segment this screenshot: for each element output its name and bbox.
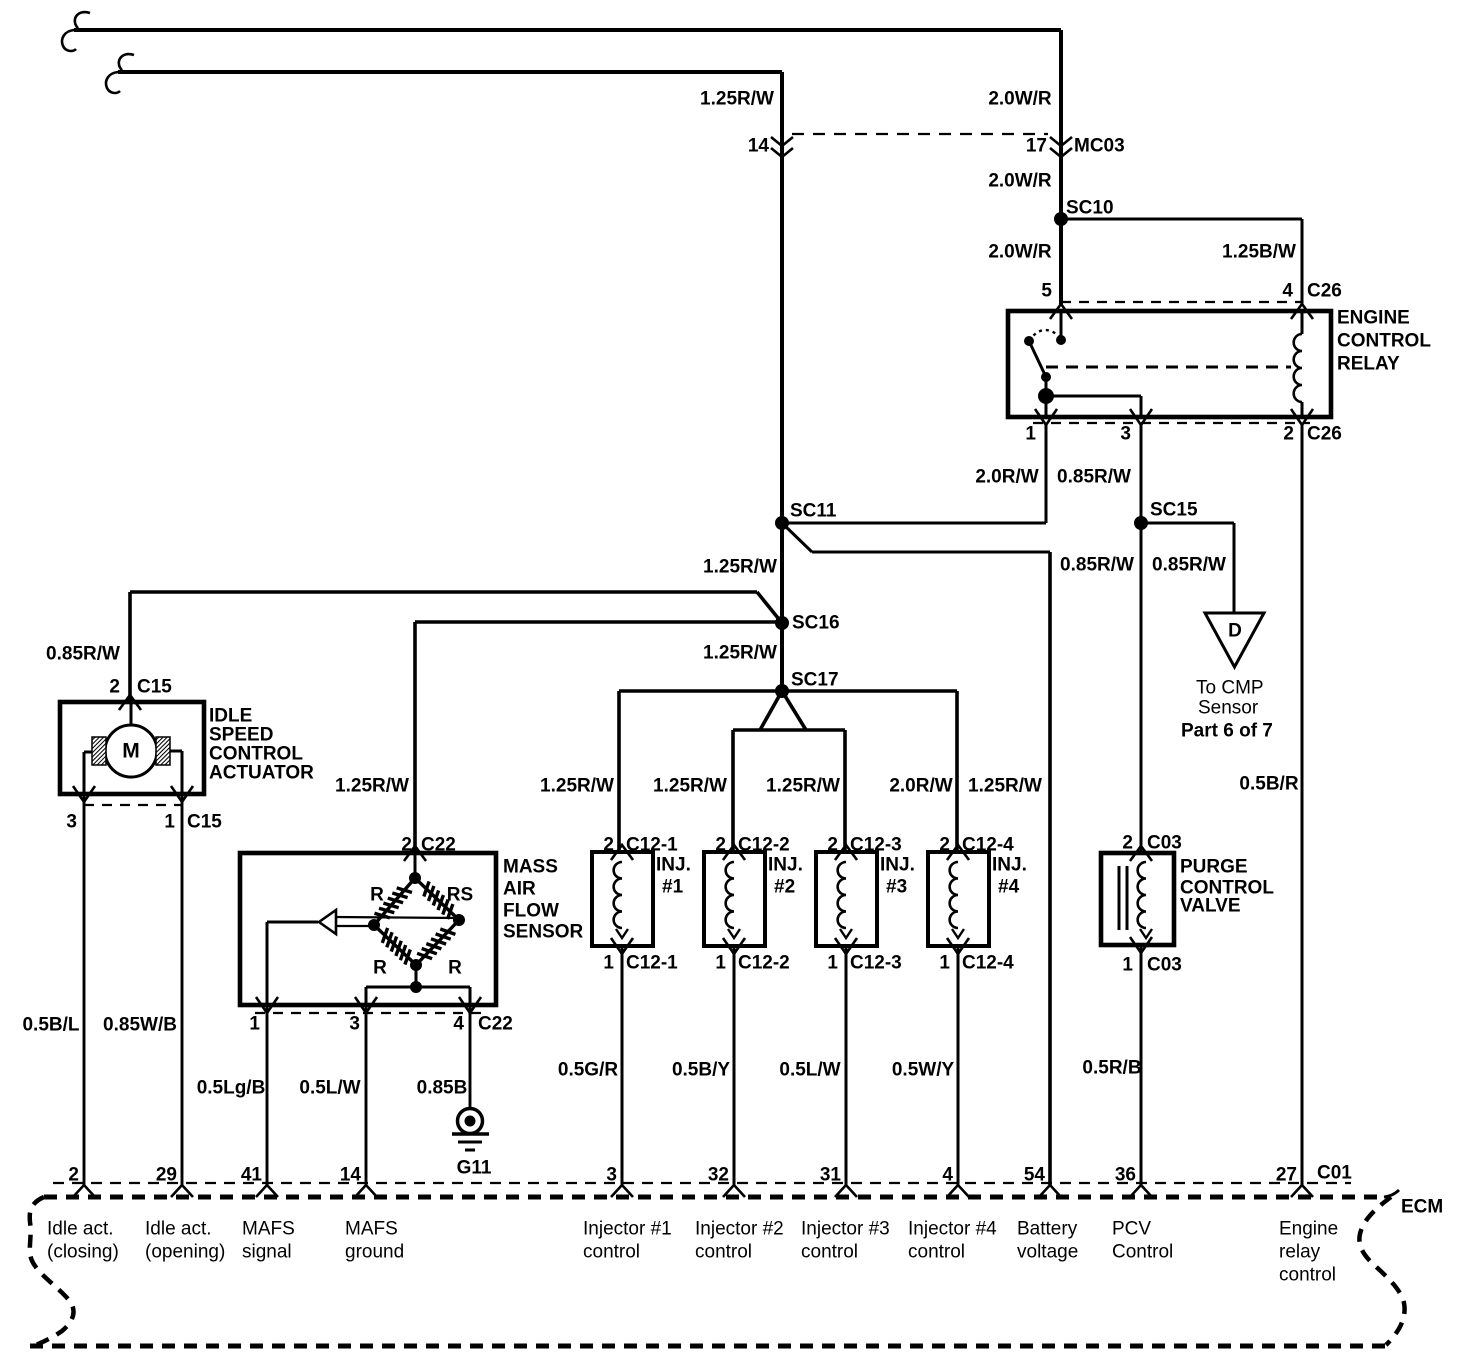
- svg-text:0.5Lg/B: 0.5Lg/B: [197, 1078, 266, 1099]
- relay contact fixed dot left: [1024, 336, 1034, 346]
- svg-text:PURGE: PURGE: [1180, 857, 1248, 878]
- ECM pin 3 arrow: [611, 1185, 633, 1197]
- amplifier arrow shaft: [335, 917, 458, 918]
- splice SC15: [1134, 516, 1148, 530]
- svg-text:control: control: [908, 1242, 965, 1263]
- svg-text:CONTROL: CONTROL: [209, 744, 303, 765]
- injector #3 pin 1 exit arrow: [835, 938, 857, 954]
- ECM pin 41 arrow: [256, 1185, 278, 1197]
- motor M symbol: [105, 725, 157, 777]
- svg-text:RELAY: RELAY: [1337, 354, 1400, 375]
- svg-text:Idle act.: Idle act.: [47, 1219, 114, 1240]
- svg-text:C12-1: C12-1: [626, 835, 678, 856]
- svg-text:0.5R/B: 0.5R/B: [1082, 1058, 1141, 1079]
- svg-text:M: M: [122, 740, 140, 763]
- off-page arrow D To CMP Sensor: [1205, 613, 1264, 667]
- ECM case right wavy dashed border: [1359, 1197, 1404, 1345]
- wire diagonal from SC11 to battery feed: [782, 523, 812, 552]
- svg-text:3: 3: [66, 812, 77, 833]
- wire 1.25R/W injector4 feed: [955, 691, 959, 852]
- wire injector #2 control to ECM 32: [733, 946, 736, 1185]
- bridge node top: [409, 872, 421, 884]
- ECM pin 29 arrow: [171, 1185, 193, 1197]
- idle pin 2 entry arrow: [119, 695, 141, 710]
- purge valve coil: [1138, 862, 1146, 928]
- connector MC03 pin 14: [771, 137, 793, 157]
- svg-text:1.25R/W: 1.25R/W: [335, 776, 409, 797]
- svg-text:R: R: [373, 958, 387, 979]
- splice SC17: [775, 684, 789, 698]
- bridge ground junction dot: [410, 981, 422, 993]
- svg-text:0.5L/W: 0.5L/W: [299, 1078, 360, 1099]
- svg-text:#2: #2: [774, 877, 795, 898]
- svg-text:Injector #4: Injector #4: [908, 1219, 997, 1240]
- wire bridge ground left drop: [365, 987, 368, 1005]
- relay pin 1 exit arrow: [1035, 409, 1057, 425]
- idle pin 3 exit arrow: [73, 786, 95, 802]
- ECM pin 2 arrow: [73, 1185, 95, 1197]
- svg-text:0.85R/W: 0.85R/W: [1060, 555, 1134, 576]
- connector C15 bottom dashed: [84, 804, 182, 806]
- relay contact fixed dot right: [1056, 335, 1066, 345]
- splice SC10: [1054, 212, 1068, 226]
- ECM pin 4 arrow: [947, 1185, 969, 1197]
- svg-text:C26: C26: [1307, 424, 1342, 445]
- wire 0.85R/W relay pin3 down through SC15 to purge valve: [1140, 423, 1143, 853]
- svg-text:31: 31: [820, 1165, 842, 1186]
- ECM case top dashed border: [44, 1195, 1384, 1200]
- wire motor right lead down: [181, 751, 184, 794]
- svg-text:2: 2: [603, 835, 614, 856]
- connector C26 top dashed: [1061, 301, 1302, 303]
- relay pin 4 entry arrow: [1291, 304, 1313, 319]
- svg-text:control: control: [1279, 1265, 1336, 1286]
- svg-text:C12-4: C12-4: [962, 835, 1014, 856]
- injector #4 box: [928, 852, 989, 946]
- relay switch armature: [1029, 341, 1046, 377]
- wire 1.25R/W second horizontal feed: [118, 70, 782, 74]
- injector #1 box: [592, 852, 653, 946]
- svg-text:5: 5: [1041, 281, 1052, 302]
- svg-text:1: 1: [1025, 424, 1036, 445]
- svg-text:2: 2: [109, 677, 120, 698]
- injector #1 coil: [614, 862, 622, 928]
- svg-text:32: 32: [708, 1165, 729, 1186]
- svg-text:0.85W/B: 0.85W/B: [103, 1015, 177, 1036]
- svg-text:1.25R/W: 1.25R/W: [766, 776, 840, 797]
- svg-text:signal: signal: [242, 1242, 292, 1263]
- svg-text:#3: #3: [886, 877, 907, 898]
- motor brush left: [92, 737, 106, 765]
- svg-text:#4: #4: [998, 877, 1020, 898]
- svg-text:relay: relay: [1279, 1242, 1321, 1263]
- svg-text:SENSOR: SENSOR: [503, 922, 584, 943]
- idle pin 1 exit arrow: [171, 786, 193, 802]
- wire diagonal into SC16: [757, 592, 782, 623]
- mass air flow sensor box: [240, 853, 496, 1005]
- connector C26 bottom dashed: [1033, 422, 1310, 424]
- bridge node right: [453, 914, 465, 926]
- svg-text:Injector #3: Injector #3: [801, 1219, 890, 1240]
- injector #4 pin 1 exit arrow: [947, 938, 969, 954]
- wire 0.5R/B PCV control to ECM 36: [1140, 945, 1143, 1185]
- svg-text:2: 2: [1283, 424, 1294, 445]
- wire 1.25R/W to idle actuator horizontal: [130, 590, 757, 594]
- svg-text:SC10: SC10: [1066, 198, 1114, 219]
- svg-text:control: control: [801, 1242, 858, 1263]
- svg-text:0.5B/Y: 0.5B/Y: [672, 1060, 730, 1081]
- svg-text:14: 14: [340, 1165, 362, 1186]
- svg-text:2.0W/R: 2.0W/R: [988, 171, 1052, 192]
- purge pin 2 entry arrow: [1130, 846, 1152, 861]
- wire 1.25R/W injector1 feed: [617, 691, 621, 853]
- svg-text:3: 3: [1120, 424, 1131, 445]
- svg-text:PCV: PCV: [1112, 1219, 1151, 1240]
- ECM pin 36 arrow: [1130, 1185, 1152, 1197]
- wire SC15 branch vertical to CMP triangle: [1233, 523, 1236, 613]
- bridge node bottom: [410, 959, 422, 971]
- wire 0.5B/R engine relay control vertical to ECM 27: [1301, 423, 1304, 1185]
- svg-text:0.85R/W: 0.85R/W: [1152, 555, 1226, 576]
- svg-text:control: control: [583, 1242, 640, 1263]
- svg-text:C12-4: C12-4: [962, 953, 1014, 974]
- svg-text:36: 36: [1115, 1165, 1136, 1186]
- svg-text:(opening): (opening): [145, 1242, 225, 1263]
- wire 0.5Lg/B MAFS signal to ECM 41: [266, 1005, 269, 1185]
- svg-text:0.5B/R: 0.5B/R: [1239, 774, 1298, 795]
- svg-text:4: 4: [942, 1165, 953, 1186]
- svg-text:C12-3: C12-3: [850, 953, 902, 974]
- svg-text:(closing): (closing): [47, 1242, 119, 1263]
- wire 0.85W/B idle opening to ECM 29: [181, 794, 184, 1185]
- wire SC17 crossbar: [733, 728, 845, 732]
- svg-text:0.5B/L: 0.5B/L: [22, 1015, 79, 1036]
- wire 2.0W/R vertical to engine control relay pin 5: [1059, 30, 1063, 304]
- injector #3 pin 2 entry arrow: [835, 845, 857, 860]
- wire 0.5B/L idle closing to ECM 2: [83, 794, 86, 1185]
- svg-text:AIR: AIR: [503, 879, 536, 900]
- svg-text:#1: #1: [662, 877, 684, 898]
- svg-text:IDLE: IDLE: [209, 706, 252, 727]
- wire injector #1 control to ECM 3: [621, 946, 624, 1185]
- svg-text:C03: C03: [1147, 955, 1182, 976]
- svg-text:Part 6 of 7: Part 6 of 7: [1181, 721, 1273, 742]
- wire bridge ground horizontal: [366, 986, 470, 989]
- svg-text:2: 2: [68, 1165, 79, 1186]
- wire 0.85B to ground G11: [469, 1005, 472, 1108]
- svg-text:2.0R/W: 2.0R/W: [889, 776, 952, 797]
- wire MAFS signal lead: [267, 921, 318, 924]
- ECM pin 32 arrow: [723, 1185, 745, 1197]
- wire 0.5L/W MAFS ground to ECM 14: [365, 1005, 368, 1185]
- wire SC17 right diagonal: [782, 691, 806, 730]
- motor brush right: [156, 737, 170, 765]
- svg-text:voltage: voltage: [1017, 1242, 1078, 1263]
- svg-text:Control: Control: [1112, 1242, 1173, 1263]
- engine control relay box: [1008, 311, 1331, 417]
- bridge resistor RS top-right: [415, 878, 459, 920]
- svg-text:Injector #1: Injector #1: [583, 1219, 672, 1240]
- wire break squiggle second line: [106, 54, 134, 93]
- svg-text:1: 1: [1122, 955, 1133, 976]
- svg-text:CONTROL: CONTROL: [1337, 331, 1431, 352]
- svg-text:4: 4: [1282, 281, 1293, 302]
- svg-text:3: 3: [606, 1165, 617, 1186]
- splice SC11: [775, 516, 789, 530]
- wire 1.25R/W battery voltage vertical to ECM 54: [1048, 552, 1052, 1185]
- injector #3 coil: [838, 862, 846, 928]
- idle speed control actuator box: [60, 702, 204, 794]
- svg-text:2.0R/W: 2.0R/W: [975, 467, 1038, 488]
- bridge resistor R bottom-left: [374, 925, 416, 965]
- svg-text:0.5G/R: 0.5G/R: [558, 1060, 618, 1081]
- svg-text:2: 2: [1122, 833, 1133, 854]
- amplifier triangle arrowhead: [319, 910, 336, 934]
- relay contact dotted travel arc: [1029, 330, 1059, 341]
- wire battery feed horizontal: [812, 551, 1050, 554]
- svg-text:To CMP: To CMP: [1196, 678, 1264, 699]
- relay coil bottom stub: [1301, 402, 1304, 417]
- bridge resistor R bottom-right: [416, 920, 459, 965]
- svg-text:27: 27: [1276, 1165, 1297, 1186]
- svg-text:INJ.: INJ.: [880, 855, 915, 876]
- MAFS pin 4 exit arrow: [459, 997, 481, 1013]
- relay armature lower link: [1045, 377, 1048, 396]
- svg-text:INJ.: INJ.: [768, 855, 803, 876]
- svg-text:1.25R/W: 1.25R/W: [653, 776, 727, 797]
- wire motor left lead: [84, 751, 92, 754]
- wire SC17 horizontal bus: [619, 689, 957, 693]
- MAFS pin 2 entry arrow: [404, 846, 426, 861]
- injector #1 pin 1 exit arrow: [611, 938, 633, 954]
- svg-text:1.25R/W: 1.25R/W: [700, 89, 774, 110]
- svg-text:2: 2: [827, 835, 838, 856]
- svg-text:C03: C03: [1147, 833, 1182, 854]
- ECM pin 31 arrow: [835, 1185, 857, 1197]
- bridge node left: [368, 919, 380, 931]
- svg-text:1.25R/W: 1.25R/W: [540, 776, 614, 797]
- svg-text:INJ.: INJ.: [992, 855, 1027, 876]
- ECM pin 54 arrow: [1039, 1185, 1061, 1197]
- svg-text:1: 1: [164, 812, 175, 833]
- wire bridge bottom lead: [415, 965, 418, 987]
- svg-text:MASS: MASS: [503, 857, 558, 878]
- svg-text:Sensor: Sensor: [1198, 698, 1259, 719]
- svg-text:0.85R/W: 0.85R/W: [1057, 467, 1131, 488]
- svg-text:VALVE: VALVE: [1180, 896, 1241, 917]
- svg-text:C01: C01: [1317, 1163, 1352, 1184]
- svg-text:C26: C26: [1307, 281, 1342, 302]
- svg-text:INJ.: INJ.: [656, 855, 691, 876]
- connector MC03 pin 17: [1050, 137, 1072, 157]
- svg-text:29: 29: [156, 1165, 177, 1186]
- relay pin 2 exit arrow: [1291, 409, 1313, 425]
- svg-text:C12-2: C12-2: [738, 835, 790, 856]
- MAFS pin 1 exit arrow: [256, 997, 278, 1013]
- ground G11 symbol: [458, 1109, 483, 1134]
- svg-text:1: 1: [827, 953, 838, 974]
- relay internal drop to pin 1: [1045, 396, 1048, 417]
- svg-text:C12-2: C12-2: [738, 953, 790, 974]
- svg-text:1: 1: [715, 953, 726, 974]
- wire 1.25R/W MAFS vertical: [413, 622, 417, 853]
- svg-text:ECM: ECM: [1401, 1197, 1443, 1218]
- injector #2 box: [704, 852, 765, 946]
- svg-text:2: 2: [715, 835, 726, 856]
- injector #2 coil: [726, 862, 734, 928]
- svg-text:SPEED: SPEED: [209, 725, 273, 746]
- svg-text:1.25R/W: 1.25R/W: [968, 776, 1042, 797]
- wire motor left lead down: [83, 752, 86, 794]
- wire 1.25R/W injector2 feed: [731, 730, 735, 852]
- wire 2.0W/R top horizontal feed: [74, 28, 1061, 32]
- svg-text:FLOW: FLOW: [503, 901, 559, 922]
- wire 1.25R/W trunk vertical (to SC17): [780, 72, 784, 691]
- svg-text:14: 14: [748, 136, 770, 157]
- svg-text:2.0W/R: 2.0W/R: [988, 242, 1052, 263]
- wire 2.0R/W relay pin1 down: [1045, 423, 1048, 523]
- svg-text:ground: ground: [345, 1242, 404, 1263]
- wire motor right lead: [170, 750, 182, 753]
- svg-text:R: R: [448, 958, 462, 979]
- svg-text:MC03: MC03: [1074, 136, 1125, 157]
- MAFS pin 3 exit arrow: [355, 997, 377, 1013]
- svg-text:ACTUATOR: ACTUATOR: [209, 763, 314, 784]
- relay common big dot: [1038, 388, 1054, 404]
- svg-text:3: 3: [349, 1014, 360, 1035]
- wire 2.0R/W horizontal to SC11: [782, 522, 1046, 525]
- connector C22 bottom dashed: [255, 1012, 482, 1014]
- wire 1.25R/W to MAFS horizontal: [415, 620, 782, 624]
- svg-text:0.5L/W: 0.5L/W: [779, 1060, 840, 1081]
- svg-text:0.85R/W: 0.85R/W: [46, 644, 120, 665]
- svg-text:SC11: SC11: [790, 501, 837, 522]
- wire bridge ground right drop: [469, 987, 472, 1005]
- svg-text:Engine: Engine: [1279, 1219, 1338, 1240]
- svg-text:17: 17: [1026, 136, 1047, 157]
- wire injector #3 control to ECM 31: [845, 946, 848, 1185]
- relay internal wire to pin 3: [1046, 395, 1141, 398]
- bridge resistor R top-left: [374, 878, 415, 925]
- wire 1.25R/W injector3 feed: [843, 730, 847, 852]
- ECM pin 14 arrow: [355, 1185, 377, 1197]
- svg-text:G11: G11: [457, 1158, 492, 1179]
- purge valve bars: [1118, 866, 1121, 930]
- ECM case bottom dashed border: [30, 1344, 1386, 1349]
- svg-text:1.25R/W: 1.25R/W: [703, 643, 777, 664]
- connector C01 dashed line at ECM: [53, 1182, 1351, 1184]
- svg-text:Battery: Battery: [1017, 1219, 1078, 1240]
- wire bridge top lead: [414, 853, 417, 878]
- relay coil top stub: [1301, 311, 1304, 334]
- svg-text:MAFS: MAFS: [242, 1219, 295, 1240]
- svg-text:C15: C15: [137, 677, 172, 698]
- ECM border end hook: [1384, 1190, 1399, 1197]
- relay internal drop to pin 3: [1140, 396, 1143, 417]
- svg-text:4: 4: [453, 1014, 464, 1035]
- purge control valve box: [1101, 853, 1174, 945]
- relay pin 3 exit arrow: [1130, 409, 1152, 425]
- injector #2 pin 1 exit arrow: [723, 938, 745, 954]
- svg-text:41: 41: [241, 1165, 263, 1186]
- relay armature mid dot: [1041, 372, 1051, 382]
- svg-text:2: 2: [939, 835, 950, 856]
- svg-text:0.5W/Y: 0.5W/Y: [892, 1060, 955, 1081]
- svg-text:SC15: SC15: [1150, 500, 1198, 521]
- injector #2 pin 2 entry arrow: [723, 845, 745, 860]
- connector MC03 dashed link: [792, 133, 1048, 135]
- svg-text:2.0W/R: 2.0W/R: [988, 89, 1052, 110]
- wire 0.85R/W idle actuator vertical: [128, 592, 132, 702]
- svg-text:Idle act.: Idle act.: [145, 1219, 212, 1240]
- svg-text:1.25R/W: 1.25R/W: [703, 557, 777, 578]
- wire 1.25B/W from SC10 to relay pin 4: [1061, 218, 1302, 221]
- svg-text:MAFS: MAFS: [345, 1219, 398, 1240]
- wire injector #4 control to ECM 4: [957, 946, 960, 1185]
- injector #4 pin 2 entry arrow: [947, 845, 969, 860]
- svg-text:0.85B: 0.85B: [417, 1078, 468, 1099]
- svg-text:R: R: [370, 885, 384, 906]
- injector #4 coil: [950, 862, 958, 928]
- splice SC16: [775, 616, 789, 630]
- relay pin5 internal stub: [1060, 311, 1063, 340]
- wire SC17 left diagonal: [760, 691, 782, 730]
- wire 1.25B/W vertical to relay pin 4: [1301, 219, 1304, 304]
- wire SC15 branch horizontal: [1141, 522, 1234, 525]
- svg-text:ENGINE: ENGINE: [1337, 308, 1410, 329]
- ECM case left wavy dashed border: [30, 1197, 74, 1347]
- svg-text:1: 1: [603, 953, 614, 974]
- purge pin 1 exit arrow: [1130, 937, 1152, 953]
- svg-text:C12-3: C12-3: [850, 835, 902, 856]
- svg-text:D: D: [1228, 621, 1242, 642]
- svg-text:C12-1: C12-1: [626, 953, 678, 974]
- wire break squiggle top line: [62, 12, 90, 51]
- svg-text:RS: RS: [447, 885, 473, 906]
- svg-text:control: control: [695, 1242, 752, 1263]
- wire motor top lead: [130, 702, 133, 725]
- svg-text:1: 1: [939, 953, 950, 974]
- svg-text:1.25B/W: 1.25B/W: [1222, 242, 1296, 263]
- injector #3 box: [816, 852, 877, 946]
- svg-text:C22: C22: [478, 1014, 513, 1035]
- svg-text:Injector #2: Injector #2: [695, 1219, 784, 1240]
- svg-text:SC16: SC16: [792, 613, 840, 634]
- svg-text:1: 1: [249, 1014, 260, 1035]
- relay coil: [1294, 334, 1302, 402]
- relay pin 5 entry arrow: [1050, 304, 1072, 319]
- wire MAFS signal lead down: [266, 922, 269, 1005]
- injector #1 pin 2 entry arrow: [611, 845, 633, 860]
- svg-text:C15: C15: [187, 812, 222, 833]
- ECM pin 27 arrow: [1291, 1185, 1313, 1197]
- relay mechanical link dashed: [1046, 366, 1291, 369]
- svg-text:54: 54: [1024, 1165, 1046, 1186]
- svg-text:SC17: SC17: [791, 670, 839, 691]
